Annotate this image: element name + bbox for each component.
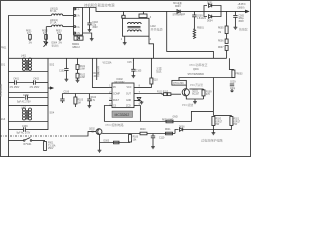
svg-text:R041: R041 bbox=[165, 129, 171, 131]
svg-text:OUT: OUT bbox=[126, 94, 131, 96]
svg-text:PFC控制电路: PFC控制电路 bbox=[106, 122, 124, 127]
svg-text:471 250V: 471 250V bbox=[10, 87, 20, 89]
svg-text:QT01 2SK: QT01 2SK bbox=[173, 83, 184, 85]
wire top wire to transformer bbox=[142, 11, 144, 14]
svg-text:1M: 1M bbox=[78, 102, 81, 104]
winding W2 bbox=[128, 30, 142, 32]
choke LF2 windings bbox=[23, 108, 26, 120]
svg-text:9µF AC 275V: 9µF AC 275V bbox=[17, 101, 31, 104]
wire L002 to IC001 pin3 bbox=[63, 26, 74, 28]
svg-text:Q002: Q002 bbox=[89, 129, 95, 131]
svg-text:Q101: Q101 bbox=[192, 90, 198, 92]
wire down from L002 to varistor rail bbox=[46, 26, 51, 28]
winding W1 bbox=[128, 22, 142, 24]
svg-text:F001: F001 bbox=[48, 143, 54, 145]
resistor R112 bbox=[168, 93, 171, 96]
resistor R106 bbox=[129, 135, 132, 143]
VCC feed resistor R110 bbox=[138, 84, 152, 87]
svg-text:1%: 1% bbox=[29, 42, 32, 44]
svg-text:C110: C110 bbox=[159, 138, 165, 140]
svg-text:PFC滤波: PFC滤波 bbox=[182, 103, 193, 107]
wire pin1 from bus bbox=[92, 58, 109, 87]
svg-text:180µ: 180µ bbox=[238, 18, 244, 20]
left rail bbox=[8, 58, 10, 157]
snubber box C010 bbox=[139, 14, 147, 18]
relay switch RYW01 bbox=[9, 139, 24, 141]
svg-text:L401: L401 bbox=[21, 56, 27, 58]
inductor L001 bbox=[52, 14, 63, 16]
svg-text:1.8M: 1.8M bbox=[80, 68, 85, 70]
svg-text:开关电源: 开关电源 bbox=[151, 27, 163, 32]
inductor FR003 bbox=[229, 58, 233, 70]
resistor R103 below row2 bbox=[74, 94, 76, 98]
svg-text:5T·3A: 5T·3A bbox=[50, 10, 57, 13]
svg-text:D004: D004 bbox=[207, 20, 213, 22]
svg-text:BD001: BD001 bbox=[72, 44, 80, 46]
svg-text:R106: R106 bbox=[133, 137, 139, 139]
svg-text:R109: R109 bbox=[206, 91, 212, 93]
svg-text:100p: 100p bbox=[230, 88, 236, 90]
svg-text:IOR17: IOR17 bbox=[216, 121, 223, 123]
drain rail down bbox=[212, 78, 214, 116]
svg-text:1M: 1M bbox=[218, 32, 221, 34]
diode D106 at GND pin bbox=[138, 99, 141, 101]
svg-text:R006: R006 bbox=[218, 41, 224, 43]
wire from CS row bbox=[191, 111, 213, 121]
wire main bus bbox=[9, 57, 227, 59]
IC002 box bbox=[112, 83, 134, 108]
wire emitter tap bbox=[100, 142, 131, 144]
svg-text:SG2: SG2 bbox=[50, 65, 55, 67]
svg-text:250V: 250V bbox=[48, 148, 54, 150]
svg-text:C402: C402 bbox=[33, 79, 39, 81]
svg-text:C102: C102 bbox=[59, 70, 65, 72]
svg-text:IOR17: IOR17 bbox=[234, 121, 241, 123]
capacitor C106 below row2 bbox=[88, 94, 90, 100]
svg-text:R021: R021 bbox=[234, 119, 240, 121]
wire box top to drain rail bbox=[179, 78, 213, 81]
wire aux winding to right bbox=[167, 11, 214, 58]
wire from left rail to coil L001 bbox=[9, 16, 52, 59]
svg-text:R040: R040 bbox=[140, 129, 146, 131]
isolation dash-dot line bbox=[0, 135, 70, 137]
wire below choke2 bbox=[9, 121, 49, 123]
svg-text:SG4: SG4 bbox=[50, 112, 55, 114]
resistor R201 startup bbox=[123, 11, 125, 15]
bottom rail wire bbox=[104, 121, 191, 123]
svg-text:GND: GND bbox=[173, 117, 178, 119]
svg-text:MULT: MULT bbox=[113, 100, 120, 102]
wire filter mid bbox=[9, 92, 49, 94]
resistor R109 bbox=[203, 88, 205, 91]
svg-text:MC33262: MC33262 bbox=[115, 113, 130, 117]
core bbox=[26, 60, 28, 71]
svg-text:R020: R020 bbox=[216, 119, 222, 121]
wire filter low bbox=[9, 104, 49, 106]
svg-text:SG1: SG1 bbox=[1, 65, 6, 67]
bottoms join bbox=[213, 126, 231, 130]
arrow to PFC sense bbox=[48, 87, 53, 89]
svg-text:R110: R110 bbox=[152, 80, 158, 82]
svg-text:VCC15A: VCC15A bbox=[103, 61, 112, 64]
wire OUT row to gate bbox=[138, 93, 164, 96]
svg-text:450V: 450V bbox=[92, 27, 98, 29]
emitter down to ground bbox=[99, 135, 101, 149]
wire transformer pin4 to bus bbox=[149, 36, 154, 58]
wire filter top second bbox=[9, 71, 49, 73]
collector wire up bbox=[185, 85, 187, 89]
svg-text:9µF AC 275V: 9µF AC 275V bbox=[17, 132, 31, 135]
shaded name box bbox=[112, 111, 133, 117]
arrow head bbox=[246, 10, 249, 12]
wire ZCD pin bbox=[138, 106, 141, 122]
capacitor C102 bbox=[65, 58, 67, 68]
svg-text:3 A: 3 A bbox=[76, 26, 80, 29]
resistor R006 bbox=[226, 34, 228, 39]
choke LF1 windings bbox=[23, 58, 26, 70]
svg-text:+B PFC: +B PFC bbox=[238, 4, 246, 6]
svg-text:PFC功率校正: PFC功率校正 bbox=[190, 62, 208, 67]
pin 2 bbox=[74, 15, 76, 17]
svg-text:过电流保护电路: 过电流保护电路 bbox=[201, 137, 223, 142]
fuse F001 bbox=[44, 142, 47, 151]
svg-text:整流桥: 整流桥 bbox=[52, 44, 60, 48]
svg-text:R103: R103 bbox=[78, 100, 84, 102]
svg-text:R104: R104 bbox=[91, 97, 97, 99]
svg-text:C005: C005 bbox=[238, 15, 244, 17]
svg-text:1.5n/1kV: 1.5n/1kV bbox=[197, 18, 207, 20]
resistor R101 bbox=[77, 58, 79, 64]
svg-text:C029: C029 bbox=[230, 81, 236, 83]
wire IC001 output top bbox=[83, 8, 249, 12]
svg-text:R005: R005 bbox=[218, 27, 224, 29]
svg-text:4 N: 4 N bbox=[76, 33, 80, 35]
svg-text:SG3: SG3 bbox=[1, 119, 6, 121]
capacitor C107 bbox=[61, 94, 63, 100]
capacitor C005 bbox=[234, 11, 236, 15]
svg-text:C106: C106 bbox=[64, 92, 70, 94]
svg-text:GND: GND bbox=[126, 100, 131, 102]
inductor L002 bbox=[52, 25, 63, 27]
svg-text:PFC开关管: PFC开关管 bbox=[190, 83, 203, 87]
svg-text:(380V): (380V) bbox=[238, 7, 245, 9]
svg-text:隔离: 隔离 bbox=[156, 70, 162, 74]
svg-text:CS: CS bbox=[113, 106, 117, 108]
pin 4 bbox=[74, 32, 76, 34]
transistor Q101 bbox=[182, 89, 189, 96]
svg-text:5T·3A: 5T·3A bbox=[50, 22, 57, 25]
svg-text:2 A: 2 A bbox=[76, 15, 80, 18]
wire CS pin to bottom rail bbox=[104, 106, 109, 122]
svg-text:BC337: BC337 bbox=[192, 93, 200, 95]
svg-text:RYW01: RYW01 bbox=[24, 144, 33, 146]
wire coil2 node down bbox=[45, 27, 47, 44]
svg-text:COMP: COMP bbox=[113, 94, 120, 96]
svg-text:待机和负载监控电源: 待机和负载监控电源 bbox=[84, 3, 115, 8]
emitter to ground bbox=[186, 96, 203, 99]
core lines bbox=[26, 110, 28, 120]
resistor chain R005 bbox=[226, 11, 228, 26]
QT01 label box bbox=[172, 80, 186, 85]
diode D003 bbox=[177, 10, 180, 14]
svg-text:C105: C105 bbox=[136, 70, 142, 72]
svg-text:450V: 450V bbox=[238, 21, 244, 23]
svg-text:R007: R007 bbox=[218, 47, 224, 49]
wire row2 left bbox=[62, 93, 109, 95]
svg-text:T3.15A: T3.15A bbox=[48, 144, 56, 147]
sense rail down bbox=[96, 58, 98, 80]
svg-text:D003: D003 bbox=[175, 6, 181, 8]
IC001 box bbox=[74, 8, 83, 36]
base wire bbox=[70, 132, 96, 136]
svg-text:C401: C401 bbox=[13, 79, 19, 81]
svg-text:R105: R105 bbox=[94, 73, 100, 75]
ground below transformer bbox=[124, 36, 126, 41]
svg-text:GBU4J: GBU4J bbox=[72, 47, 79, 49]
svg-text:STK730/NM600: STK730/NM600 bbox=[188, 74, 205, 76]
pin 1 bbox=[74, 8, 76, 10]
capacitor C110 bbox=[152, 134, 154, 137]
svg-text:FB001: FB001 bbox=[197, 28, 204, 30]
svg-text:STR6549FP: STR6549FP bbox=[173, 15, 186, 17]
svg-text:热地端: 热地端 bbox=[239, 27, 248, 31]
svg-text:FR003: FR003 bbox=[236, 74, 244, 76]
ground near IC001 pin4 bbox=[83, 33, 92, 38]
bridge rectifier BD001 bbox=[74, 36, 83, 40]
svg-text:消磁电路: 消磁电路 bbox=[0, 83, 3, 96]
ground OCP bbox=[212, 130, 214, 132]
svg-text:1.8M: 1.8M bbox=[80, 77, 85, 79]
core lines bbox=[128, 26, 141, 28]
svg-text:2%: 2% bbox=[59, 42, 62, 44]
svg-text:471 250V: 471 250V bbox=[30, 87, 40, 89]
svg-text:C15: C15 bbox=[127, 62, 132, 64]
ground below C003 bbox=[88, 29, 92, 32]
svg-text:Q001: Q001 bbox=[193, 69, 199, 71]
pin 3 bbox=[74, 26, 76, 28]
wire coil L001 to IC001 pin1 bbox=[63, 15, 74, 17]
transformer L002 outline bbox=[123, 18, 150, 36]
svg-text:D005: D005 bbox=[104, 141, 110, 143]
right rail bbox=[47, 58, 49, 130]
svg-text:IC002: IC002 bbox=[117, 79, 124, 81]
resistor R102 bbox=[77, 69, 79, 73]
sense resistor R121 bbox=[213, 114, 231, 116]
sense resistor R120 bbox=[212, 117, 215, 126]
svg-text:ZCD: ZCD bbox=[126, 106, 131, 108]
svg-text:PR01: PR01 bbox=[1, 48, 7, 50]
capacitor C003 bbox=[89, 8, 91, 24]
capacitor C009 bbox=[193, 11, 195, 15]
thyristor D004 bbox=[44, 42, 49, 47]
collector wire to main low rail bbox=[102, 132, 140, 134]
svg-text:VCC: VCC bbox=[127, 87, 132, 89]
border frame bbox=[1, 1, 251, 157]
